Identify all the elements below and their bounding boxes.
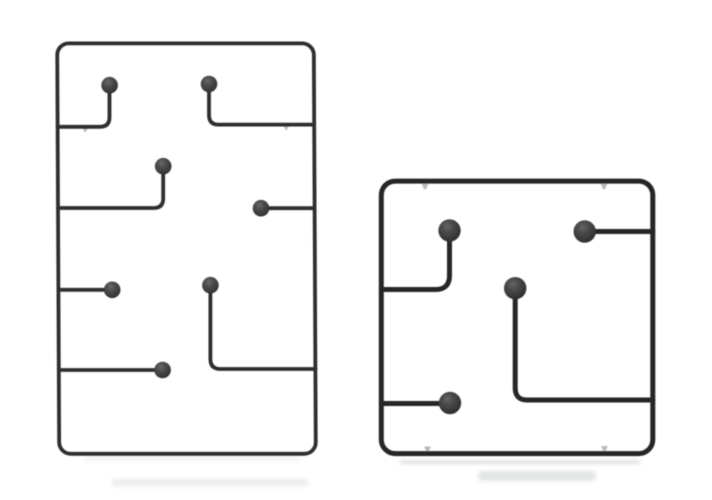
right rack wires (381, 181, 653, 454)
left ball 1 (101, 77, 118, 94)
right rack frame (381, 181, 653, 454)
left rack shadow under bottom rail (85, 458, 300, 460)
left rack wires (57, 43, 316, 453)
left rack frame (57, 43, 316, 453)
left rack mount tab top-right (284, 126, 290, 131)
left ball 2 (201, 76, 218, 93)
right ball 4 (439, 392, 461, 414)
left hook 2 wire (top-right) (209, 90, 314, 125)
left hook 4 wire (mid-right) (261, 206, 315, 210)
right rack shadow under bottom rail (400, 461, 640, 464)
left hook 7 wire (bottom-left) (59, 368, 162, 372)
left rack mount tab top-left (83, 128, 89, 133)
right hook 3 wire (center) (515, 295, 653, 400)
right hook 2 wire (upper-right) (585, 229, 653, 234)
left hook 3 wire (mid-left) (58, 172, 163, 208)
right ball 2 (574, 220, 596, 242)
right hook 4 wire (bottom-left) (381, 401, 449, 406)
right rack mount tab bottom-left (424, 447, 431, 452)
left ball 6 (202, 277, 219, 294)
left ball 4 (253, 200, 270, 217)
right rack distant wall shadow (478, 471, 596, 481)
left rack distant wall shadow (112, 479, 308, 486)
right ball 1 (438, 219, 460, 241)
right hook 1 wire (upper-left) (381, 238, 449, 290)
left hook 5 wire (low-left) (58, 288, 112, 292)
left hook 6 wire (center-low) (210, 290, 315, 369)
right rack mount tab top-left (422, 184, 429, 190)
left ball 3 (155, 158, 172, 175)
left hook 1 wire (top-left) (58, 90, 110, 127)
left ball 7 (154, 362, 171, 379)
left ball 5 (104, 282, 121, 299)
right ball 3 (504, 277, 526, 299)
right rack mount tab top-right (601, 184, 608, 190)
right rack mount tab bottom-right (601, 446, 608, 451)
